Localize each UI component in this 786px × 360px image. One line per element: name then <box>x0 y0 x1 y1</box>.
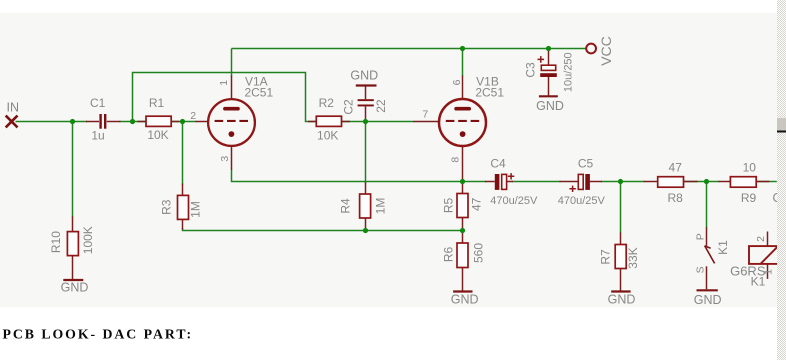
capacitor C5 polarized <box>569 174 589 192</box>
svg-text:C2: C2 <box>342 99 356 115</box>
switch K1 contact <box>705 246 715 264</box>
wire junction C1R1 up and over to R2 (grid feed) <box>133 73 317 122</box>
resistor R1 <box>146 116 171 126</box>
wire K1 tap vertical <box>706 182 708 229</box>
wire R7 tap vertical <box>620 182 622 234</box>
pin R2 right <box>342 121 351 123</box>
ground under R7 <box>611 290 630 292</box>
ground under C3 <box>539 95 558 97</box>
node V1B grid junction <box>363 119 368 124</box>
op-amp: tube triode V1A <box>208 99 255 146</box>
svg-text:GND: GND <box>451 292 479 306</box>
pin R1 right <box>171 121 179 123</box>
svg-text:470u/25V: 470u/25V <box>490 195 538 207</box>
pin R10 top <box>72 217 74 232</box>
pin C5 left <box>560 181 579 183</box>
wire C1 right to R1 left <box>119 121 146 123</box>
svg-text:R8: R8 <box>668 191 684 205</box>
resistor R3 <box>178 195 189 219</box>
pin V1B pin6 <box>462 76 464 99</box>
svg-text:R7: R7 <box>599 249 613 265</box>
wire V1B pin6 drop <box>462 49 464 77</box>
pin V1A pin1 <box>231 76 233 99</box>
pin R8 left <box>644 181 658 183</box>
svg-text:10K: 10K <box>147 128 168 142</box>
wire feedback row R3 R4 R5 <box>183 228 463 231</box>
wire V1A pin3 to cathode row <box>232 170 463 182</box>
wire C5 to R8 area <box>601 181 645 183</box>
svg-text:GND: GND <box>536 99 564 113</box>
pin R1 left <box>138 121 147 123</box>
svg-text:IN: IN <box>7 100 20 114</box>
resistor R7 <box>615 245 626 269</box>
pin R6 bottom <box>462 268 464 292</box>
svg-text:R6: R6 <box>442 247 456 263</box>
svg-text:33K: 33K <box>626 247 640 268</box>
power VCC terminal <box>586 44 596 54</box>
svg-text:1u: 1u <box>91 129 104 143</box>
node IN/R10 junction <box>70 119 75 124</box>
svg-text:6: 6 <box>451 79 463 85</box>
pin V1B pin8 <box>462 145 464 181</box>
svg-text:2: 2 <box>190 110 196 122</box>
node R7 junction <box>618 179 623 184</box>
wire R9 right to OUT <box>756 181 776 183</box>
svg-text:1M: 1M <box>374 198 388 215</box>
svg-text:1M: 1M <box>189 201 203 218</box>
svg-text:R3: R3 <box>160 199 174 215</box>
svg-text:R2: R2 <box>319 96 335 110</box>
svg-text:C4: C4 <box>490 156 506 170</box>
svg-text:47: 47 <box>470 197 484 211</box>
scrollbar track <box>777 0 786 360</box>
pin R2 left <box>308 121 316 123</box>
resistor R6 <box>457 243 468 268</box>
resistor R5 <box>457 194 468 218</box>
ground above C2 <box>356 84 377 86</box>
node R4 feedback junction <box>363 228 368 233</box>
svg-text:C3: C3 <box>524 62 538 78</box>
svg-text:R5: R5 <box>442 198 456 214</box>
svg-text:8: 8 <box>449 157 461 163</box>
pin relay coil 1 <box>767 264 769 279</box>
svg-text:2C51: 2C51 <box>475 86 504 100</box>
svg-text:GND: GND <box>608 292 636 306</box>
svg-text:VCC: VCC <box>598 36 614 66</box>
pin R8 right <box>684 181 698 183</box>
node K1 junction <box>704 179 709 184</box>
pin R4 bottom <box>365 218 367 230</box>
pin C3 bottom <box>548 77 550 96</box>
wire grid junction down to R3 <box>182 122 184 185</box>
scrollbar thumb <box>777 117 786 131</box>
pin R9 right <box>756 181 769 183</box>
relay coil K1 G6RS <box>749 246 778 264</box>
wire R8 to R9 <box>684 181 720 183</box>
svg-text:10u/250: 10u/250 <box>563 52 575 92</box>
pin R7 top <box>620 233 622 245</box>
node IN input cross <box>6 116 18 128</box>
resistor R2 <box>316 116 341 126</box>
svg-text:GND: GND <box>694 293 722 307</box>
pin C1 left <box>86 121 99 123</box>
svg-text:2: 2 <box>755 236 767 242</box>
capacitor C3 polarized <box>538 56 557 77</box>
resistor R9 <box>730 177 756 188</box>
pin C3 top <box>548 50 550 65</box>
pin R5 bottom <box>462 218 464 231</box>
svg-text:560: 560 <box>472 243 486 263</box>
wire V1A pin1 drop <box>231 49 233 77</box>
op-amp: tube triode V1B <box>439 99 486 146</box>
node rail C3 junction <box>546 46 551 51</box>
capacitor C1 <box>99 114 106 129</box>
wire top VCC rail <box>232 48 586 50</box>
svg-text:470u/25V: 470u/25V <box>558 195 606 207</box>
wire R2 right to V1B pin7 <box>342 121 415 123</box>
svg-text:S: S <box>694 266 706 273</box>
pin R3 bottom <box>182 219 184 229</box>
svg-text:22: 22 <box>374 99 388 113</box>
pin K1 P <box>706 227 708 245</box>
svg-text:GND: GND <box>350 69 378 83</box>
svg-text:3: 3 <box>219 156 231 162</box>
svg-text:R4: R4 <box>339 198 353 214</box>
pin R7 bottom <box>620 269 622 291</box>
svg-text:1: 1 <box>218 80 230 86</box>
pin R10 bottom <box>72 256 74 280</box>
ground under R10 <box>63 279 83 281</box>
svg-text:PCB LOOK- DAC PART:: PCB LOOK- DAC PART: <box>3 327 194 342</box>
node V1A grid junction <box>180 119 185 124</box>
wire C4 to C5 <box>512 181 561 183</box>
pin R9 left <box>719 181 731 183</box>
pin C2 bottom <box>365 106 367 121</box>
svg-text:K1: K1 <box>751 274 766 288</box>
pin V1A pin3 <box>231 145 233 170</box>
wire R1 right to V1A pin2 <box>171 121 196 123</box>
svg-text:C5: C5 <box>578 156 594 170</box>
pin V1A pin2 <box>196 121 208 123</box>
capacitor C4 polarized <box>495 173 515 190</box>
pin R5 top <box>462 182 464 194</box>
capacitor C2 <box>358 99 374 106</box>
resistor R4 <box>360 194 371 218</box>
pin C5 right <box>590 181 602 183</box>
svg-text:GND: GND <box>61 281 89 295</box>
wire C2/R4 junction vertical <box>365 122 367 184</box>
svg-text:R1: R1 <box>149 96 165 110</box>
pin R4 top <box>365 182 367 194</box>
svg-text:47: 47 <box>669 161 683 175</box>
svg-text:R10: R10 <box>49 231 63 253</box>
svg-text:P: P <box>694 233 706 240</box>
svg-text:10K: 10K <box>317 128 338 142</box>
pin C4 right <box>507 181 513 183</box>
pin K1 S <box>706 266 708 289</box>
ground under K1 <box>697 289 718 291</box>
pin V1B pin7 <box>413 121 438 123</box>
node C1/R1 junction <box>130 119 135 124</box>
node cathode junction <box>460 179 465 184</box>
wire cathode row junction to C4 <box>463 181 487 183</box>
resistor R10 <box>67 232 78 256</box>
resistor R8 <box>658 177 684 188</box>
pin R3 top <box>182 184 184 196</box>
svg-text:K1: K1 <box>716 240 730 255</box>
pin R6 top <box>462 232 464 244</box>
pin C4 left <box>485 181 495 183</box>
node rail V1B junction <box>460 46 465 51</box>
wire input net IN to C1 <box>16 121 88 123</box>
svg-text:10: 10 <box>743 161 757 175</box>
pin C2 top (to GND bar) <box>365 86 367 99</box>
pin relay coil 2 <box>767 232 769 247</box>
svg-text:100K: 100K <box>81 226 95 254</box>
pin C1 right <box>107 121 121 123</box>
svg-text:2C51: 2C51 <box>244 86 273 100</box>
svg-text:C1: C1 <box>90 96 106 110</box>
node R5/R6 junction <box>460 228 465 233</box>
svg-text:R9: R9 <box>741 191 757 205</box>
wire R10 tap vertical <box>72 122 74 218</box>
svg-text:7: 7 <box>422 109 428 121</box>
ground under R6 <box>453 290 472 292</box>
